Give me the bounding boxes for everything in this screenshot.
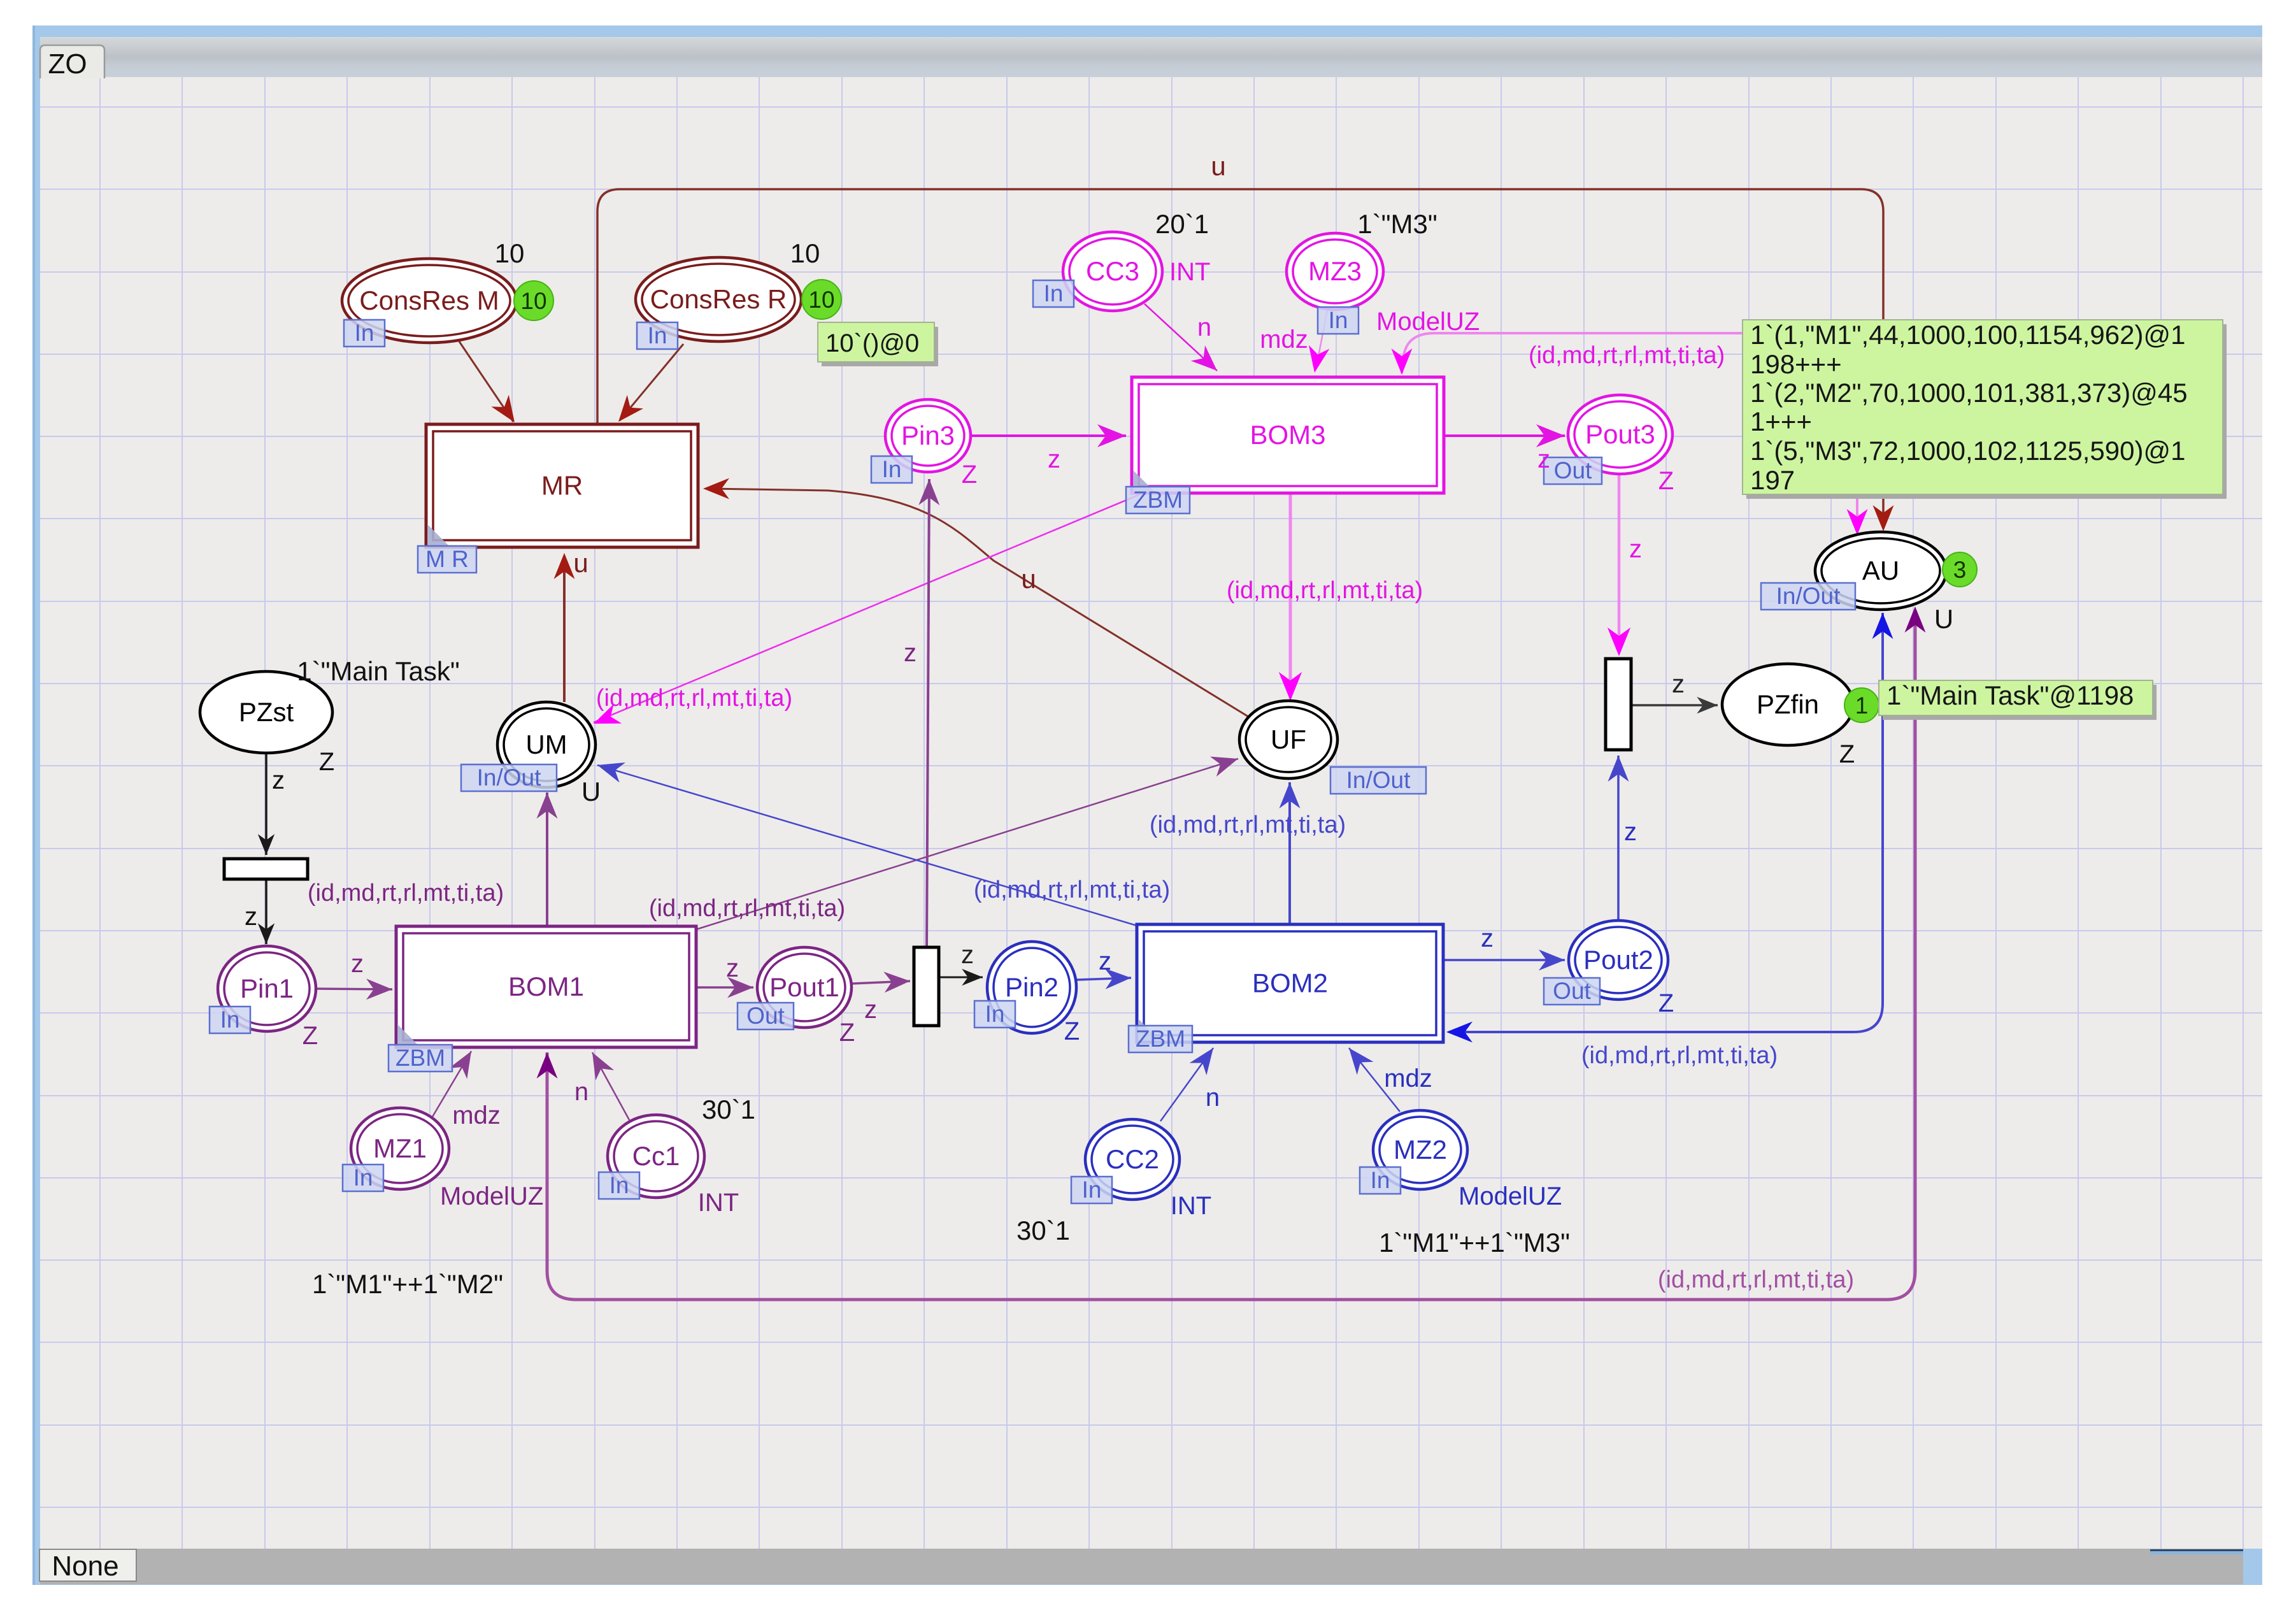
svg-text:Z: Z bbox=[303, 1022, 318, 1050]
wire UF to MR (u) bbox=[707, 489, 1251, 719]
place Pout3 bbox=[1568, 395, 1672, 474]
wire PZst to T1 (z) bbox=[265, 753, 267, 855]
svg-text:1`(2,"M2",70,1000,101,381,373): 1`(2,"M2",70,1000,101,381,373)@45 bbox=[1750, 378, 2188, 408]
svg-text:In: In bbox=[648, 322, 667, 348]
svg-text:Z: Z bbox=[1839, 740, 1855, 768]
tag In MZ3 bbox=[1318, 307, 1358, 334]
svg-text:In: In bbox=[882, 456, 902, 482]
tag ZBM BOM3 bbox=[1126, 487, 1190, 513]
tag In/Out UF bbox=[1330, 767, 1426, 794]
svg-text:(id,md,rt,rl,mt,ti,ta): (id,md,rt,rl,mt,ti,ta) bbox=[1529, 342, 1725, 369]
svg-text:Pin1: Pin1 bbox=[240, 973, 294, 1003]
transition BOM3 bbox=[1132, 377, 1444, 493]
svg-text:(id,md,rt,rl,mt,ti,ta): (id,md,rt,rl,mt,ti,ta) bbox=[308, 880, 504, 907]
svg-text:U: U bbox=[1934, 604, 1953, 634]
svg-text:BOM1: BOM1 bbox=[508, 971, 584, 1001]
svg-text:z: z bbox=[904, 639, 916, 667]
svg-text:ZBM: ZBM bbox=[396, 1045, 445, 1071]
tag In ConsRes R bbox=[637, 322, 678, 349]
place AU bbox=[1815, 532, 1946, 610]
note PZfin marking bbox=[1883, 685, 2157, 720]
svg-text:z: z bbox=[1629, 535, 1642, 563]
wire Pin3 to BOM3 (z) bbox=[971, 434, 1126, 437]
svg-text:1: 1 bbox=[1855, 692, 1869, 719]
svg-text:INT: INT bbox=[1169, 258, 1210, 286]
svg-text:MR: MR bbox=[541, 471, 583, 501]
place UF bbox=[1239, 701, 1337, 778]
wire MZ3 to BOM3 (mdz) bbox=[1316, 310, 1327, 369]
svg-text:ConsRes R: ConsRes R bbox=[650, 284, 787, 314]
place MZ2 bbox=[1373, 1110, 1467, 1189]
tag In MZ1 bbox=[343, 1165, 383, 1191]
svg-text:z: z bbox=[1537, 445, 1550, 473]
svg-text:n: n bbox=[574, 1078, 588, 1106]
svg-text:UM: UM bbox=[525, 729, 567, 759]
tag M R (MR subpage) bbox=[418, 546, 476, 573]
wire BOM2 to UF bbox=[1288, 782, 1291, 924]
svg-text:In: In bbox=[1082, 1177, 1102, 1203]
wire T2 to Pin3 (z) bbox=[927, 479, 929, 947]
svg-text:mdz: mdz bbox=[1260, 326, 1308, 354]
svg-text:197: 197 bbox=[1750, 465, 1795, 495]
wire Pout1 to T2 (z) bbox=[852, 981, 910, 984]
svg-text:Pout3: Pout3 bbox=[1585, 419, 1655, 449]
wire MZ1 to BOM1 (mdz) bbox=[432, 1051, 471, 1117]
transition T2 (Pout1 to Pin2/Pin3) bbox=[914, 947, 939, 1026]
svg-text:u: u bbox=[1021, 564, 1036, 594]
wire BOM1 to UM bbox=[546, 792, 548, 926]
place Cc1 bbox=[608, 1115, 704, 1198]
place Pin1 bbox=[218, 946, 316, 1031]
wire MZ2 to BOM2 (mdz) bbox=[1349, 1048, 1400, 1112]
tag In CC2 bbox=[1071, 1177, 1112, 1203]
svg-text:z: z bbox=[1624, 818, 1637, 846]
transition T3 (Pout2/Pout3 to PZfin) bbox=[1606, 659, 1631, 750]
tag In CC3 bbox=[1033, 280, 1074, 307]
tag In Cc1 bbox=[599, 1172, 639, 1199]
svg-text:Cc1: Cc1 bbox=[632, 1141, 680, 1171]
svg-text:MZ2: MZ2 bbox=[1394, 1135, 1447, 1165]
svg-text:AU: AU bbox=[1862, 556, 1899, 585]
wire MR to AU (u, top) bbox=[597, 189, 1883, 526]
transition T1 (PZst to Pin1) bbox=[224, 859, 308, 879]
svg-text:30`1: 30`1 bbox=[702, 1094, 755, 1124]
svg-text:mdz: mdz bbox=[1384, 1065, 1432, 1093]
svg-text:Z: Z bbox=[1658, 467, 1674, 495]
svg-text:(id,md,rt,rl,mt,ti,ta): (id,md,rt,rl,mt,ti,ta) bbox=[1658, 1266, 1854, 1293]
svg-text:198+++: 198+++ bbox=[1750, 349, 1842, 379]
token 10 ConsRes R bbox=[802, 280, 841, 319]
svg-text:Z: Z bbox=[1658, 989, 1674, 1017]
svg-text:(id,md,rt,rl,mt,ti,ta): (id,md,rt,rl,mt,ti,ta) bbox=[596, 685, 792, 712]
wire Pout2 to T3 (z) bbox=[1617, 756, 1620, 920]
transition BOM2 bbox=[1137, 924, 1443, 1042]
svg-text:In: In bbox=[985, 1001, 1005, 1027]
tag In Pin1 bbox=[210, 1007, 250, 1033]
svg-text:ConsRes M: ConsRes M bbox=[359, 285, 499, 315]
None tab bbox=[39, 1549, 136, 1581]
tag In Pin3 bbox=[871, 456, 912, 483]
svg-text:ModelUZ: ModelUZ bbox=[1458, 1182, 1562, 1210]
wire CC3 to BOM3 (n) bbox=[1144, 304, 1217, 371]
token 3 AU bbox=[1943, 552, 1977, 587]
svg-text:z: z bbox=[961, 941, 974, 969]
wire Pin2 to BOM2 (z) bbox=[1077, 978, 1131, 980]
svg-text:In: In bbox=[353, 1165, 373, 1191]
svg-text:UF: UF bbox=[1271, 724, 1306, 754]
svg-text:z: z bbox=[1672, 670, 1685, 698]
place PZfin bbox=[1722, 664, 1853, 745]
svg-text:z: z bbox=[272, 766, 285, 794]
svg-text:z: z bbox=[245, 903, 257, 931]
svg-text:30`1: 30`1 bbox=[1016, 1215, 1070, 1245]
svg-text:1`"Main Task"@1198: 1`"Main Task"@1198 bbox=[1886, 680, 2134, 710]
wire BOM2 to Pout2 (z) bbox=[1443, 959, 1565, 961]
token 1 PZfin bbox=[1844, 688, 1879, 722]
svg-text:10: 10 bbox=[790, 238, 820, 268]
ZO tab bbox=[40, 45, 104, 78]
tag In ConsRes M bbox=[344, 320, 385, 347]
svg-text:Z: Z bbox=[962, 461, 977, 489]
svg-text:Pin2: Pin2 bbox=[1005, 972, 1059, 1002]
svg-text:n: n bbox=[1197, 313, 1211, 341]
svg-text:Pout1: Pout1 bbox=[769, 972, 839, 1002]
svg-text:U: U bbox=[581, 777, 601, 806]
wire BOM1 to UF bbox=[696, 759, 1238, 929]
svg-text:10: 10 bbox=[520, 288, 546, 314]
corner marker BOM1 bbox=[397, 1024, 419, 1046]
note 10`()@0 bbox=[822, 327, 938, 366]
svg-text:BOM3: BOM3 bbox=[1250, 420, 1325, 450]
place PZst bbox=[200, 671, 332, 753]
svg-text:z: z bbox=[1481, 924, 1494, 952]
place CC2 bbox=[1085, 1119, 1180, 1200]
svg-text:None: None bbox=[52, 1551, 118, 1582]
tag ZBM BOM2 bbox=[1129, 1026, 1192, 1052]
svg-text:In/Out: In/Out bbox=[1776, 583, 1841, 609]
svg-text:1+++: 1+++ bbox=[1750, 406, 1812, 436]
place Pin3 bbox=[885, 399, 971, 472]
svg-text:Z: Z bbox=[839, 1019, 855, 1047]
svg-text:ModelUZ: ModelUZ bbox=[1376, 308, 1480, 336]
svg-text:MZ3: MZ3 bbox=[1308, 256, 1362, 286]
svg-text:n: n bbox=[1206, 1084, 1220, 1112]
corner marker BOM2 bbox=[1138, 1019, 1160, 1040]
place MZ3 bbox=[1287, 233, 1383, 310]
svg-text:PZfin: PZfin bbox=[1757, 689, 1819, 719]
svg-text:z: z bbox=[726, 954, 739, 982]
wire BOM3 to UM bbox=[594, 494, 1140, 722]
transition BOM1 bbox=[396, 926, 696, 1047]
note AU marking bbox=[1746, 324, 2227, 499]
tag ZBM BOM1 bbox=[389, 1045, 452, 1072]
place ConsRes M bbox=[342, 259, 517, 343]
svg-text:Z: Z bbox=[319, 748, 334, 776]
place UM bbox=[497, 702, 595, 787]
wire T3 to PZfin (z) bbox=[1631, 704, 1718, 706]
tag In/Out UM bbox=[461, 764, 557, 791]
wire BOM1 to AU and AU to BOM1 (bottom) bbox=[547, 615, 1915, 1300]
svg-text:INT: INT bbox=[1171, 1192, 1211, 1220]
tag Out Pout3 bbox=[1544, 457, 1602, 484]
wire BOM2 to UM bbox=[597, 765, 1137, 926]
svg-text:u: u bbox=[573, 548, 588, 578]
wire AU to BOM3 (ModelUZ curve) and BOM3 to AU bbox=[1402, 333, 1857, 530]
svg-text:10: 10 bbox=[808, 287, 834, 313]
svg-text:Pin3: Pin3 bbox=[901, 420, 955, 450]
tag In Pin2 bbox=[974, 1001, 1015, 1028]
svg-text:CC3: CC3 bbox=[1086, 256, 1139, 286]
svg-text:CC2: CC2 bbox=[1106, 1144, 1159, 1174]
tag Out Pout1 bbox=[738, 1003, 794, 1029]
wire BOM3 to Pout3 (z) bbox=[1444, 434, 1565, 437]
tag In MZ2 bbox=[1360, 1167, 1401, 1194]
tag In/Out AU bbox=[1761, 583, 1855, 610]
corner marker MR bbox=[427, 524, 449, 546]
svg-text:1`"M3": 1`"M3" bbox=[1357, 209, 1437, 239]
svg-text:10: 10 bbox=[495, 238, 525, 268]
wire ConsRes R to MR bbox=[620, 344, 683, 420]
svg-text:ZBM: ZBM bbox=[1133, 487, 1183, 513]
svg-text:z: z bbox=[351, 950, 364, 978]
place ConsRes R bbox=[636, 257, 801, 341]
place Pout1 bbox=[757, 947, 852, 1028]
wire AU to BOM2 and BOM2 to AU bbox=[1449, 613, 1883, 1032]
svg-text:Z: Z bbox=[1064, 1017, 1080, 1045]
wire Pin1 to BOM1 (z) bbox=[317, 989, 392, 989]
wire Pout3 to T3 (z) bbox=[1618, 474, 1621, 654]
svg-text:In: In bbox=[355, 320, 374, 346]
svg-text:In: In bbox=[1371, 1167, 1390, 1193]
svg-text:(id,md,rt,rl,mt,ti,ta): (id,md,rt,rl,mt,ti,ta) bbox=[1581, 1042, 1778, 1069]
place Pin2 bbox=[987, 942, 1076, 1033]
svg-text:(id,md,rt,rl,mt,ti,ta): (id,md,rt,rl,mt,ti,ta) bbox=[1227, 577, 1423, 604]
place Pout2 bbox=[1569, 921, 1668, 1000]
svg-text:1`(5,"M3",72,1000,102,1125,590: 1`(5,"M3",72,1000,102,1125,590)@1 bbox=[1750, 436, 2185, 466]
svg-text:(id,md,rt,rl,mt,ti,ta): (id,md,rt,rl,mt,ti,ta) bbox=[649, 895, 845, 922]
place MZ1 bbox=[351, 1108, 449, 1189]
svg-text:Out: Out bbox=[1554, 457, 1592, 484]
svg-text:ModelUZ: ModelUZ bbox=[440, 1182, 543, 1210]
wire ConsRes M to MR bbox=[459, 341, 513, 422]
wire BOM1 to Pout1 (z) bbox=[696, 986, 753, 989]
place CC3 bbox=[1063, 232, 1162, 311]
wire T2 to Pin2 (z) bbox=[939, 977, 983, 979]
wire Cc1 to BOM1 (n) bbox=[592, 1052, 629, 1120]
svg-text:ZBM: ZBM bbox=[1136, 1026, 1185, 1052]
transition MR bbox=[426, 424, 698, 547]
corner marker BOM3 bbox=[1133, 470, 1155, 492]
bottom bar bbox=[40, 1549, 2243, 1584]
svg-text:z: z bbox=[864, 996, 877, 1024]
svg-text:In/Out: In/Out bbox=[477, 764, 541, 791]
svg-text:mdz: mdz bbox=[452, 1101, 501, 1129]
wire T1 to Pin1 (z) bbox=[265, 879, 267, 944]
wire CC2 to BOM2 (n) bbox=[1160, 1048, 1213, 1121]
svg-text:z: z bbox=[1099, 947, 1111, 975]
svg-text:In/Out: In/Out bbox=[1346, 767, 1411, 793]
token 10 ConsRes M bbox=[514, 281, 553, 320]
svg-text:20`1: 20`1 bbox=[1155, 209, 1209, 239]
svg-text:1`"M1"++1`"M2": 1`"M1"++1`"M2" bbox=[312, 1269, 503, 1299]
svg-text:3: 3 bbox=[1953, 557, 1967, 583]
svg-text:u: u bbox=[1211, 151, 1225, 181]
svg-text:In: In bbox=[220, 1007, 240, 1033]
svg-text:Out: Out bbox=[746, 1003, 785, 1029]
svg-text:ZO: ZO bbox=[48, 48, 87, 80]
wire UM to MR (u) bbox=[563, 557, 566, 702]
svg-text:(id,md,rt,rl,mt,ti,ta): (id,md,rt,rl,mt,ti,ta) bbox=[1150, 812, 1346, 838]
svg-text:10`()@0: 10`()@0 bbox=[825, 329, 919, 357]
svg-text:M R: M R bbox=[425, 546, 469, 572]
svg-text:MZ1: MZ1 bbox=[373, 1133, 427, 1163]
svg-text:1`(1,"M1",44,1000,100,1154,962: 1`(1,"M1",44,1000,100,1154,962)@1 bbox=[1750, 320, 2185, 350]
svg-text:In: In bbox=[610, 1172, 629, 1198]
svg-text:PZst: PZst bbox=[239, 697, 294, 727]
svg-text:In: In bbox=[1329, 307, 1348, 333]
svg-text:(id,md,rt,rl,mt,ti,ta): (id,md,rt,rl,mt,ti,ta) bbox=[974, 877, 1170, 903]
svg-text:1`"Main Task": 1`"Main Task" bbox=[297, 656, 459, 686]
wire BOM3 to UF bbox=[1289, 493, 1292, 698]
svg-text:1`"M1"++1`"M3": 1`"M1"++1`"M3" bbox=[1379, 1228, 1570, 1258]
svg-text:BOM2: BOM2 bbox=[1252, 968, 1328, 998]
svg-text:In: In bbox=[1044, 280, 1064, 306]
svg-text:Pout2: Pout2 bbox=[1583, 945, 1653, 975]
svg-text:Out: Out bbox=[1553, 978, 1591, 1004]
svg-text:z: z bbox=[1048, 445, 1060, 473]
tag Out Pout2 bbox=[1544, 978, 1600, 1005]
svg-text:INT: INT bbox=[698, 1189, 739, 1217]
